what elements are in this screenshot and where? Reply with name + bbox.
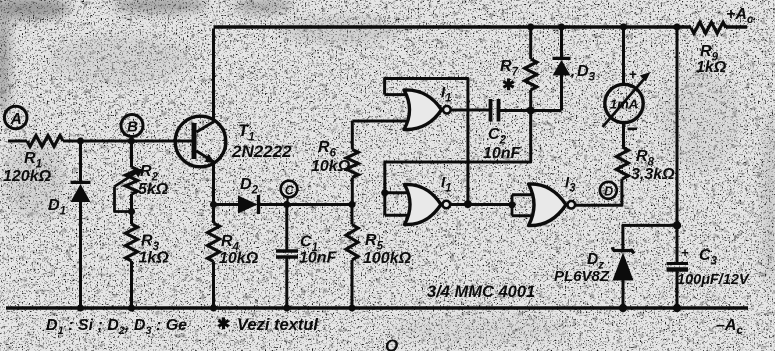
junction: I3 input tie bbox=[508, 201, 515, 208]
wire: meter to R8 bbox=[622, 123, 625, 148]
wire: I3 tied inputs bbox=[512, 195, 532, 216]
junction: Dz to rail bbox=[619, 304, 627, 312]
junction: feedback tap bbox=[464, 200, 472, 208]
wire: I3 output up to R8 bbox=[575, 179, 622, 205]
junction: C1 to rail bbox=[283, 304, 290, 311]
junction: C2/R7 node bbox=[527, 107, 535, 115]
svg-text:1mA: 1mA bbox=[610, 97, 638, 112]
svg-text:10nF: 10nF bbox=[299, 250, 338, 267]
junction: D1 to rail bbox=[77, 304, 84, 311]
svg-text:Vezi textul: Vezi textul bbox=[237, 316, 318, 334]
capacitor C3 electrolytic bbox=[667, 245, 750, 308]
wire: emitter to D2 bbox=[214, 203, 239, 206]
wire: collector to top rail bbox=[212, 29, 215, 121]
label 3/4 MMC4001 bbox=[427, 283, 535, 301]
svg-text:120kΩ: 120kΩ bbox=[3, 168, 52, 185]
diode D3 bbox=[531, 29, 596, 111]
top supply rail +Ac bbox=[214, 25, 748, 29]
resistor R9 bbox=[691, 22, 727, 76]
transistor T1 2N2222 bbox=[175, 116, 292, 167]
svg-text:D: D bbox=[604, 185, 613, 199]
bottom rail -Ac bbox=[6, 306, 748, 310]
svg-text:10kΩ: 10kΩ bbox=[311, 158, 351, 175]
svg-text:✱: ✱ bbox=[502, 77, 515, 94]
svg-text:1kΩ: 1kΩ bbox=[696, 59, 727, 76]
gate I1 (top NOR) bbox=[404, 84, 452, 130]
svg-text:3,3kΩ: 3,3kΩ bbox=[631, 166, 675, 183]
gate I3 (NOR) bbox=[529, 174, 577, 226]
potentiometer R2 (rheostat) bbox=[115, 141, 169, 215]
svg-text:+: + bbox=[629, 67, 637, 82]
zener diode Dz PL6V8Z bbox=[554, 248, 634, 309]
note D1:Si D2,D3:Ge bbox=[46, 317, 187, 337]
svg-text:✱: ✱ bbox=[217, 316, 230, 333]
wire: right vertical from rail bbox=[676, 29, 679, 263]
resistor R8 bbox=[616, 147, 675, 183]
wire: bottom gate output to I3 bbox=[450, 203, 512, 206]
svg-text:Q: Q bbox=[385, 336, 398, 351]
label +Ac bbox=[726, 6, 754, 26]
svg-text:100μF/12V: 100μF/12V bbox=[677, 272, 750, 288]
junction: R4 to rail bbox=[210, 304, 217, 311]
note * Vezi textul bbox=[217, 316, 318, 334]
junction: meter top rail bbox=[620, 23, 627, 30]
resistor R3 bbox=[126, 212, 170, 309]
junction: D3 top rail bbox=[558, 23, 565, 30]
resistor R7 bbox=[500, 29, 537, 111]
wire: net X down to lower gate inputs bbox=[385, 111, 531, 216]
resistor R1 bbox=[3, 136, 63, 186]
capacitor C2 bbox=[483, 99, 531, 162]
resistor R5 bbox=[346, 205, 412, 309]
svg-text:1kΩ: 1kΩ bbox=[139, 250, 170, 267]
svg-text:,: , bbox=[570, 63, 575, 80]
junction: node B / R2 tap bbox=[128, 137, 135, 144]
node C bbox=[281, 181, 298, 205]
wire: feedback top-gate input bbox=[385, 79, 468, 204]
svg-text:+: + bbox=[681, 245, 689, 260]
node D bbox=[600, 182, 617, 199]
svg-text:A: A bbox=[10, 111, 22, 128]
node B bbox=[121, 115, 143, 137]
wire: emitter down bbox=[212, 163, 215, 205]
junction: C3 to rail bbox=[673, 304, 681, 312]
junction: R5 to rail bbox=[348, 304, 355, 311]
resistor R4 bbox=[208, 205, 259, 309]
wire: Dz jog bbox=[623, 225, 677, 249]
svg-text:B: B bbox=[127, 119, 138, 136]
wire: R1 to base (through D1, B junctions) bbox=[63, 140, 192, 143]
junction: C1 tap bbox=[283, 201, 290, 208]
wire: D2 to R5/R6 node bbox=[259, 203, 353, 206]
resistor R6 bbox=[311, 121, 408, 205]
svg-text:10nF: 10nF bbox=[483, 145, 522, 162]
stray mark Q bbox=[385, 336, 398, 351]
junction: D1 tap bbox=[77, 137, 84, 144]
junction: right vertical top rail bbox=[673, 23, 680, 30]
node A bbox=[4, 106, 27, 129]
svg-text:C: C bbox=[285, 183, 295, 197]
diode D1 bbox=[48, 141, 91, 308]
junction: R5/R6 node bbox=[348, 201, 355, 208]
junction: lower gate input tie bbox=[381, 189, 388, 196]
junction: R7 top rail bbox=[527, 23, 534, 30]
meter 1mA bbox=[603, 67, 651, 129]
diode D2 bbox=[238, 176, 259, 214]
capacitor C1 bbox=[276, 205, 338, 309]
junction: Dz tap on right vertical bbox=[673, 221, 681, 229]
gate I1 (bottom NOR) bbox=[405, 174, 452, 225]
svg-text:PL6V8Z: PL6V8Z bbox=[554, 268, 610, 285]
svg-text:100kΩ: 100kΩ bbox=[363, 250, 412, 267]
label -Ac bbox=[716, 317, 743, 337]
svg-text:10kΩ: 10kΩ bbox=[219, 250, 259, 267]
wire: gate I1 output to C2 bbox=[451, 109, 490, 112]
wire: input A to R1 bbox=[8, 140, 27, 143]
svg-text:5kΩ: 5kΩ bbox=[138, 181, 169, 198]
junction: R3 to rail bbox=[128, 304, 135, 311]
wire: rail to meter bbox=[622, 29, 625, 85]
svg-text:2N2222: 2N2222 bbox=[231, 142, 292, 161]
svg-text:3/4 MMC 4001: 3/4 MMC 4001 bbox=[427, 283, 535, 301]
junction: emitter node bbox=[210, 201, 217, 208]
